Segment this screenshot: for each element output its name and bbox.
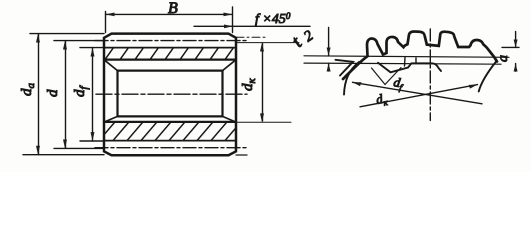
dimension d_f extension bottom bbox=[80, 140, 104, 142]
pitch line top (dash-dot) bbox=[95, 40, 248, 42]
pitch line bottom (dash-dot) bbox=[95, 147, 248, 149]
web side right bbox=[221, 71, 223, 117]
dimension d_a line bbox=[38, 34, 40, 155]
tangent line upper bbox=[304, 56, 509, 58]
svg-text:f ×450: f ×450 bbox=[255, 11, 291, 27]
hatching bottom rim band bbox=[99, 122, 241, 141]
slant bottom-right bbox=[223, 116, 236, 122]
svg-text:dк: dк bbox=[375, 90, 390, 109]
web side left bbox=[116, 71, 118, 117]
root tick center bbox=[415, 58, 417, 63]
axis center line bbox=[96, 93, 247, 95]
bottom face right stub bbox=[236, 154, 247, 156]
root line top bbox=[104, 47, 236, 49]
dimension d_f line bbox=[92, 48, 94, 141]
dash-dot stub right of gear bbox=[236, 36, 268, 38]
teeth profile bbox=[343, 31, 497, 79]
dimension d_k top extension bbox=[237, 42, 299, 44]
chamfer note f x 45 leader bbox=[194, 25, 310, 27]
rim inner edge bottom bbox=[104, 121, 236, 123]
tangent line lower bbox=[304, 63, 501, 64]
dimension d_k diagonal line (right view) bbox=[360, 85, 478, 107]
dimension a line lower bbox=[515, 64, 517, 72]
svg-text:2: 2 bbox=[301, 28, 317, 46]
dimension a tick bbox=[502, 46, 519, 48]
svg-text:a: a bbox=[496, 55, 511, 62]
dimension B extension right bbox=[232, 7, 234, 33]
dimension d extension bottom bbox=[54, 147, 104, 149]
tooth roots zigzag bbox=[378, 63, 441, 73]
root circle arc right bbox=[479, 61, 497, 92]
rim inner edge top bbox=[104, 58, 236, 60]
dimension d_a extension top bbox=[30, 33, 104, 35]
root V line under left teeth bbox=[372, 68, 402, 85]
gear body outline (section view) bbox=[104, 34, 236, 156]
tooth start mark left bbox=[336, 60, 354, 76]
svg-text:df: df bbox=[392, 74, 405, 93]
web top face bbox=[118, 69, 223, 71]
root line bottom bbox=[104, 140, 236, 142]
dimension d line bbox=[65, 41, 67, 149]
dimension t2 line upper bbox=[328, 28, 330, 56]
dimension d extension top bbox=[54, 40, 104, 42]
wheel center line bbox=[429, 29, 431, 121]
svg-text:dк: dк bbox=[240, 78, 258, 92]
slant top-left bbox=[105, 60, 118, 70]
dimension d_f diagonal line (right view) bbox=[353, 82, 483, 104]
dimension d_k line bbox=[262, 44, 264, 122]
dimension d_f extension top bbox=[80, 47, 104, 49]
dimension B extension left bbox=[105, 12, 107, 33]
svg-text:B: B bbox=[168, 0, 178, 17]
root circle arc left bbox=[344, 62, 359, 95]
slant bottom-left bbox=[105, 116, 118, 122]
hatching top rim band bbox=[105, 48, 234, 60]
dimension d_k bottom extension bbox=[237, 121, 291, 123]
svg-text:d: d bbox=[45, 89, 61, 97]
dimension a line upper bbox=[515, 32, 517, 48]
svg-text:da: da bbox=[19, 83, 37, 97]
slant top-right bbox=[223, 60, 236, 70]
dimension t2 line lower bbox=[328, 63, 330, 71]
root tick left bbox=[404, 58, 407, 67]
dimension d_a extension bottom bbox=[23, 154, 104, 156]
svg-text:df: df bbox=[72, 85, 90, 98]
dimension B line bbox=[106, 13, 233, 15]
web bottom face bbox=[118, 115, 223, 117]
